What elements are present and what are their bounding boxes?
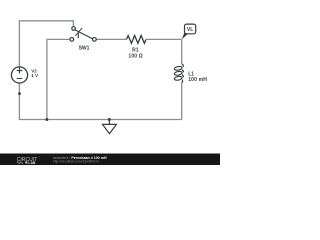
node junction dot below V2 <box>18 92 21 95</box>
footer bar <box>0 154 220 166</box>
svg-text:VL: VL <box>187 27 193 33</box>
inductor L1 <box>174 64 183 83</box>
wire: switch left terminal left, then down to bottom rail <box>47 39 70 119</box>
svg-text:100 mH: 100 mH <box>188 77 207 83</box>
svg-text:LAB: LAB <box>28 161 36 165</box>
footer logo chip <box>25 161 27 163</box>
svg-text:R1: R1 <box>132 47 139 53</box>
wire: node VL down to L1 <box>181 39 183 64</box>
node flag VL box <box>185 24 196 34</box>
node flag VL pointer tail <box>182 33 188 40</box>
footer logo zigzag <box>17 162 23 164</box>
svg-text:100 Ω: 100 Ω <box>128 54 142 60</box>
wire: V2 bottom down, bottom rail to the right side <box>19 83 181 119</box>
ground <box>103 120 117 134</box>
wire: switch right terminal to R1 <box>96 38 126 40</box>
svg-text:1 V: 1 V <box>31 73 39 78</box>
switch SW1 <box>70 27 96 42</box>
wire: R1 to node VL <box>146 38 182 40</box>
resistor R1 <box>127 36 147 44</box>
node junction dot bottom rail / mid vertical <box>45 118 48 121</box>
svg-text:SW1: SW1 <box>79 45 90 51</box>
wire: L1 bottom down to bottom rail <box>181 83 183 120</box>
node junction dot bottom rail / ground <box>108 118 111 121</box>
svg-text:http://circuitlab.com/c6pwf4bf: http://circuitlab.com/c6pwf4bfc7u <box>53 160 99 164</box>
voltage source V2 <box>11 67 27 83</box>
wire: V2 top up to top rail, right to switch top stub <box>19 21 73 67</box>
